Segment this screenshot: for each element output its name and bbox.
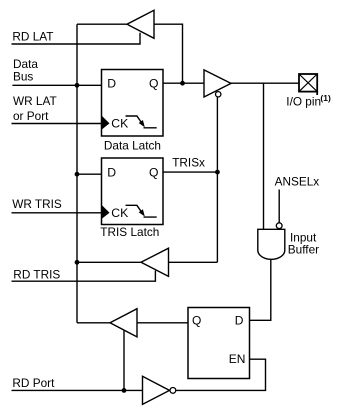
wire U1 output <box>77 23 127 25</box>
tri-state buffer U1 (RD LAT readback) <box>127 10 154 38</box>
wire D input TRIS latch <box>77 173 102 175</box>
wire WR LAT <box>12 123 102 125</box>
svg-text:RD TRIS: RD TRIS <box>13 267 60 281</box>
node RD TRIS junction <box>75 260 80 265</box>
wire data bus vertical <box>76 24 78 323</box>
output driver U3 <box>204 70 231 97</box>
svg-text:Buffer: Buffer <box>288 242 319 256</box>
inverter U9 <box>143 376 170 404</box>
input buffer gate U6 <box>258 229 285 259</box>
svg-text:Q: Q <box>192 313 201 327</box>
TRIS latch U4 <box>102 158 164 225</box>
wire driver enable / TRISx vertical <box>216 97 218 262</box>
clock edge symbol (TRIS latch) <box>126 205 157 217</box>
wire U8 output <box>77 322 110 324</box>
wire input buffer output to D <box>250 260 271 321</box>
svg-text:RD LAT: RD LAT <box>12 29 53 43</box>
wire driver output to pin <box>231 82 299 84</box>
svg-text:or Port: or Port <box>13 109 49 123</box>
node RD Port junction <box>122 388 127 393</box>
svg-text:Q: Q <box>149 77 158 91</box>
node TRISx junction <box>215 170 220 175</box>
svg-text:WR TRIS: WR TRIS <box>12 197 62 211</box>
clock edge symbol (data latch) <box>126 116 157 128</box>
wire WR TRIS <box>12 212 102 214</box>
data latch U2 <box>102 70 164 137</box>
bubble inverter output <box>170 388 176 394</box>
wire inverter output to EN <box>176 359 266 390</box>
wire RD TRIS enable <box>12 271 156 282</box>
svg-text:CK: CK <box>111 206 128 220</box>
svg-text:WR LAT: WR LAT <box>13 94 57 108</box>
tri-state buffer U5 (RD TRIS readback) <box>141 248 169 276</box>
node data bus / D junction <box>75 83 80 88</box>
wire data bus <box>12 84 102 86</box>
wire RD LAT enable <box>12 33 141 44</box>
svg-text:TRISx: TRISx <box>172 155 205 169</box>
svg-text:D: D <box>107 77 116 91</box>
svg-text:I/O pin: I/O pin <box>286 95 321 109</box>
svg-text:(1): (1) <box>320 93 331 103</box>
wire TRISx <box>163 171 217 173</box>
svg-text:D: D <box>235 313 244 327</box>
svg-text:ANSELx: ANSELx <box>275 175 320 189</box>
svg-text:Data Latch: Data Latch <box>104 138 161 152</box>
arrowhead WR TRIS clock <box>102 205 110 219</box>
svg-text:Bus: Bus <box>13 69 33 83</box>
svg-text:EN: EN <box>229 352 246 366</box>
I/O pin symbol <box>299 74 317 92</box>
wire pin line to input buffer <box>263 83 265 229</box>
tri-state buffer U8 (RD Port readback) <box>110 309 137 337</box>
svg-text:D: D <box>107 166 116 180</box>
wire Q to output driver <box>163 82 204 84</box>
arrowhead WR LAT clock <box>102 116 110 130</box>
node Q junction <box>180 81 185 86</box>
wire Q to RD Port buffer <box>137 322 188 324</box>
wire U1 input <box>154 24 183 83</box>
node TRIS D junction <box>75 172 80 177</box>
wire ANSELx <box>278 190 280 223</box>
svg-text:RD Port: RD Port <box>12 376 55 390</box>
wire U5 output <box>77 261 141 263</box>
wire U8 enable <box>123 330 125 390</box>
port read latch U7 <box>188 308 250 379</box>
svg-text:TRIS Latch: TRIS Latch <box>100 225 159 239</box>
svg-text:CK: CK <box>111 117 128 131</box>
svg-text:Q: Q <box>149 166 158 180</box>
bubble ANSELx input <box>276 223 282 229</box>
wire RD TRIS buffer input <box>169 261 218 263</box>
bubble driver enable <box>216 92 221 97</box>
wire RD Port <box>12 389 143 391</box>
